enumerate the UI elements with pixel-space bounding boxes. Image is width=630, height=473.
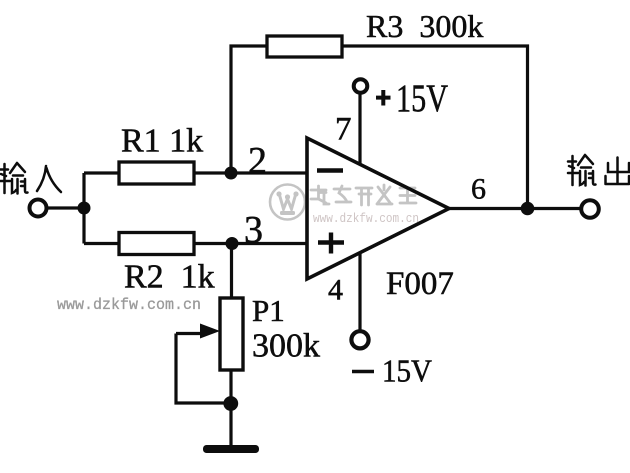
svg-text:R3 300k: R3 300k: [366, 8, 483, 44]
output wire: [449, 207, 580, 210]
wire junction vertical: [82, 173, 85, 244]
svg-text:300k: 300k: [252, 328, 320, 365]
input terminal: [30, 200, 47, 217]
svg-text:7: 7: [335, 112, 352, 148]
P1 wiper return wire: [176, 334, 231, 404]
node 3: [226, 237, 239, 250]
label shu-ru input: [0, 163, 61, 194]
wire node3 down to P1: [230, 244, 233, 299]
svg-text:F007: F007: [386, 266, 454, 302]
svg-text:P1: P1: [252, 293, 285, 328]
svg-text:2: 2: [248, 140, 267, 182]
pin 4 wire: [358, 253, 361, 330]
-15V supply terminal: [351, 331, 368, 348]
pin 7 wire: [358, 94, 361, 164]
op-amp plus sign: [318, 233, 344, 254]
wire node3 to op-amp plus: [232, 242, 306, 245]
resistor R1: [119, 162, 194, 184]
svg-text:3: 3: [244, 209, 263, 251]
svg-text:www.dzkfw.com.cn: www.dzkfw.com.cn: [313, 212, 419, 226]
P1 wiper arrow: [176, 332, 204, 335]
node 6 output junction: [521, 202, 535, 216]
wire to R2: [84, 242, 119, 245]
wire to R1: [84, 171, 119, 174]
op-amp U1: [307, 138, 449, 279]
wire input to junction: [47, 206, 84, 209]
label -15V: [352, 353, 432, 389]
resistor R2: [119, 233, 194, 255]
resistor R3: [267, 36, 342, 57]
wire node2 up to feedback: [231, 46, 267, 173]
svg-text:R1 1k: R1 1k: [121, 123, 203, 160]
svg-text:R2 1k: R2 1k: [124, 259, 215, 296]
wire R3 to output branch: [342, 46, 528, 209]
svg-text:www.dzkfw.com.cn: www.dzkfw.com.cn: [57, 296, 201, 314]
svg-text:4: 4: [328, 274, 343, 307]
+15V supply terminal: [354, 79, 368, 93]
wire R1 to node 2: [194, 171, 231, 174]
ground: [203, 445, 259, 453]
svg-text:6: 6: [471, 173, 486, 206]
op-amp minus sign: [317, 168, 343, 172]
node input junction: [78, 202, 91, 215]
label +15V: [376, 77, 448, 120]
output terminal: [581, 200, 599, 218]
svg-text:15V: 15V: [382, 353, 432, 389]
potentiometer P1 body: [220, 298, 243, 370]
wire node2 to op-amp minus: [231, 171, 306, 174]
node 2: [225, 167, 238, 180]
node P1 bottom junction: [223, 396, 238, 411]
label shu-chu output: [568, 155, 629, 186]
wire P1 to ground: [229, 370, 232, 446]
svg-text:15V: 15V: [396, 77, 448, 120]
wire R2 to node 3: [194, 242, 232, 245]
